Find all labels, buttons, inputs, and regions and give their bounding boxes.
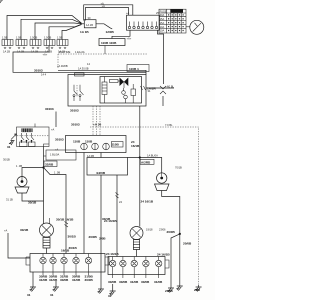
svg-text:A/2RD: A/2RD [141, 161, 151, 165]
svg-text:31: 31 [7, 145, 11, 149]
svg-text:2/08: 2/08 [194, 288, 200, 292]
svg-text:+A+: +A+ [43, 53, 48, 57]
svg-text:30/0B: 30/0B [141, 280, 150, 284]
svg-text:30A: 30A [160, 13, 165, 17]
svg-text:FUSE: FUSE [160, 9, 167, 13]
svg-text:+A 30: +A 30 [93, 123, 102, 127]
svg-text:23/06: 23/06 [159, 228, 166, 232]
svg-text:+A: +A [102, 4, 106, 8]
svg-text:20/0B: 20/0B [89, 235, 98, 239]
svg-text:4/0 BL: 4/0 BL [167, 84, 175, 88]
svg-text:1.5CB: 1.5CB [44, 36, 51, 40]
svg-text:30/1B 16/1B: 30/1B 16/1B [56, 218, 74, 222]
svg-text:1A 1B: 1A 1B [31, 50, 38, 54]
svg-text:1.5B: 1.5B [16, 36, 22, 40]
svg-text:31/0B: 31/0B [154, 280, 163, 284]
svg-text:+A+: +A+ [127, 36, 132, 40]
svg-text:+A: +A [4, 229, 8, 233]
svg-text:70/1B: 70/1B [175, 166, 182, 170]
svg-text:30/0B: 30/0B [85, 278, 94, 282]
svg-text:1A 1B: 1A 1B [3, 50, 10, 54]
svg-text:DAYTIME: DAYTIME [59, 50, 71, 54]
svg-text:+A: +A [55, 148, 59, 152]
svg-text:23/06: 23/06 [165, 289, 173, 293]
svg-text:1A 30.0B: 1A 30.0B [78, 67, 89, 71]
svg-text:24 16/1B: 24 16/1B [157, 253, 170, 257]
svg-text:10A: 10A [160, 25, 165, 29]
svg-text:1.5B: 1.5B [57, 36, 63, 40]
svg-text:110B: 110B [112, 143, 120, 147]
svg-text:30/0B: 30/0B [108, 280, 117, 284]
svg-text:19/18: 19/18 [146, 228, 153, 232]
svg-text:30/1B: 30/1B [102, 217, 111, 221]
svg-text:E2/0B: E2/0B [97, 171, 106, 175]
svg-text:1A 1B: 1A 1B [80, 30, 89, 34]
svg-text:110B: 110B [73, 140, 81, 144]
svg-text:1.5CB: 1.5CB [30, 36, 37, 40]
svg-text:+A 30/0B: +A 30/0B [57, 64, 68, 68]
svg-text:31: 31 [108, 294, 112, 298]
svg-text:31/0B: 31/0B [130, 280, 139, 284]
svg-text:30/1B: 30/1B [28, 201, 37, 205]
svg-text:1A 1B: 1A 1B [86, 23, 93, 27]
svg-text:31/0B: 31/0B [39, 278, 48, 282]
svg-text:31/0B: 31/0B [49, 278, 58, 282]
svg-text:1A BL/0A: 1A BL/0A [147, 154, 158, 158]
svg-text:10A: 10A [160, 29, 165, 33]
svg-text:30/1B: 30/1B [68, 235, 77, 239]
svg-text:31: 31 [50, 293, 54, 297]
svg-text:30103: 30103 [71, 123, 80, 127]
svg-text:30/1B: 30/1B [3, 158, 10, 162]
svg-text:31/0B: 31/0B [72, 278, 81, 282]
svg-text:15A: 15A [160, 21, 165, 25]
svg-text:30103: 30103 [45, 107, 54, 111]
svg-text:24 16/1B: 24 16/1B [106, 252, 119, 256]
svg-text:1.5B: 1.5B [2, 36, 8, 40]
svg-text:1 .0B: 1 .0B [16, 164, 22, 168]
svg-text:30/1B: 30/1B [20, 228, 29, 232]
svg-text:110B 1: 110B 1 [129, 67, 139, 71]
svg-text:30/0B: 30/0B [60, 278, 69, 282]
svg-text:14 4: 14 4 [41, 73, 47, 77]
svg-text:1A/2R: 1A/2R [147, 87, 157, 91]
svg-text:31: 31 [27, 293, 31, 297]
svg-text:12/0B: 12/0B [106, 30, 115, 34]
svg-text:16/1B: 16/1B [131, 144, 140, 148]
svg-text:32/0B: 32/0B [45, 163, 54, 167]
svg-text:1 EA-0A: 1 EA-0A [75, 50, 85, 54]
svg-text:110B 110B: 110B 110B [101, 41, 117, 45]
svg-text:30103: 30103 [70, 109, 79, 113]
svg-text:1 .0B: 1 .0B [54, 171, 60, 175]
svg-text:+A: +A [126, 11, 130, 15]
svg-text:20/0B: 20/0B [167, 230, 176, 234]
svg-text:1 BL/0A: 1 BL/0A [50, 153, 59, 157]
svg-text:30103: 30103 [34, 68, 43, 72]
svg-text:1A 0B: 1A 0B [87, 154, 94, 158]
svg-text:30/0B: 30/0B [119, 280, 128, 284]
svg-text:31 1B: 31 1B [6, 198, 13, 202]
svg-text:15A: 15A [160, 17, 165, 21]
svg-text:20/0B: 20/0B [183, 242, 192, 246]
svg-text:7.0 BL: 7.0 BL [165, 123, 173, 127]
svg-text:24 16/1B: 24 16/1B [141, 200, 154, 204]
svg-text:30103: 30103 [55, 138, 64, 142]
svg-text:2/0B: 2/0B [99, 237, 106, 241]
svg-text:30/1B: 30/1B [69, 246, 78, 250]
svg-text:16/1B: 16/1B [61, 249, 70, 253]
svg-text:1A 1B: 1A 1B [17, 50, 24, 54]
svg-text:110B: 110B [85, 140, 93, 144]
svg-text:+A: +A [51, 128, 55, 132]
